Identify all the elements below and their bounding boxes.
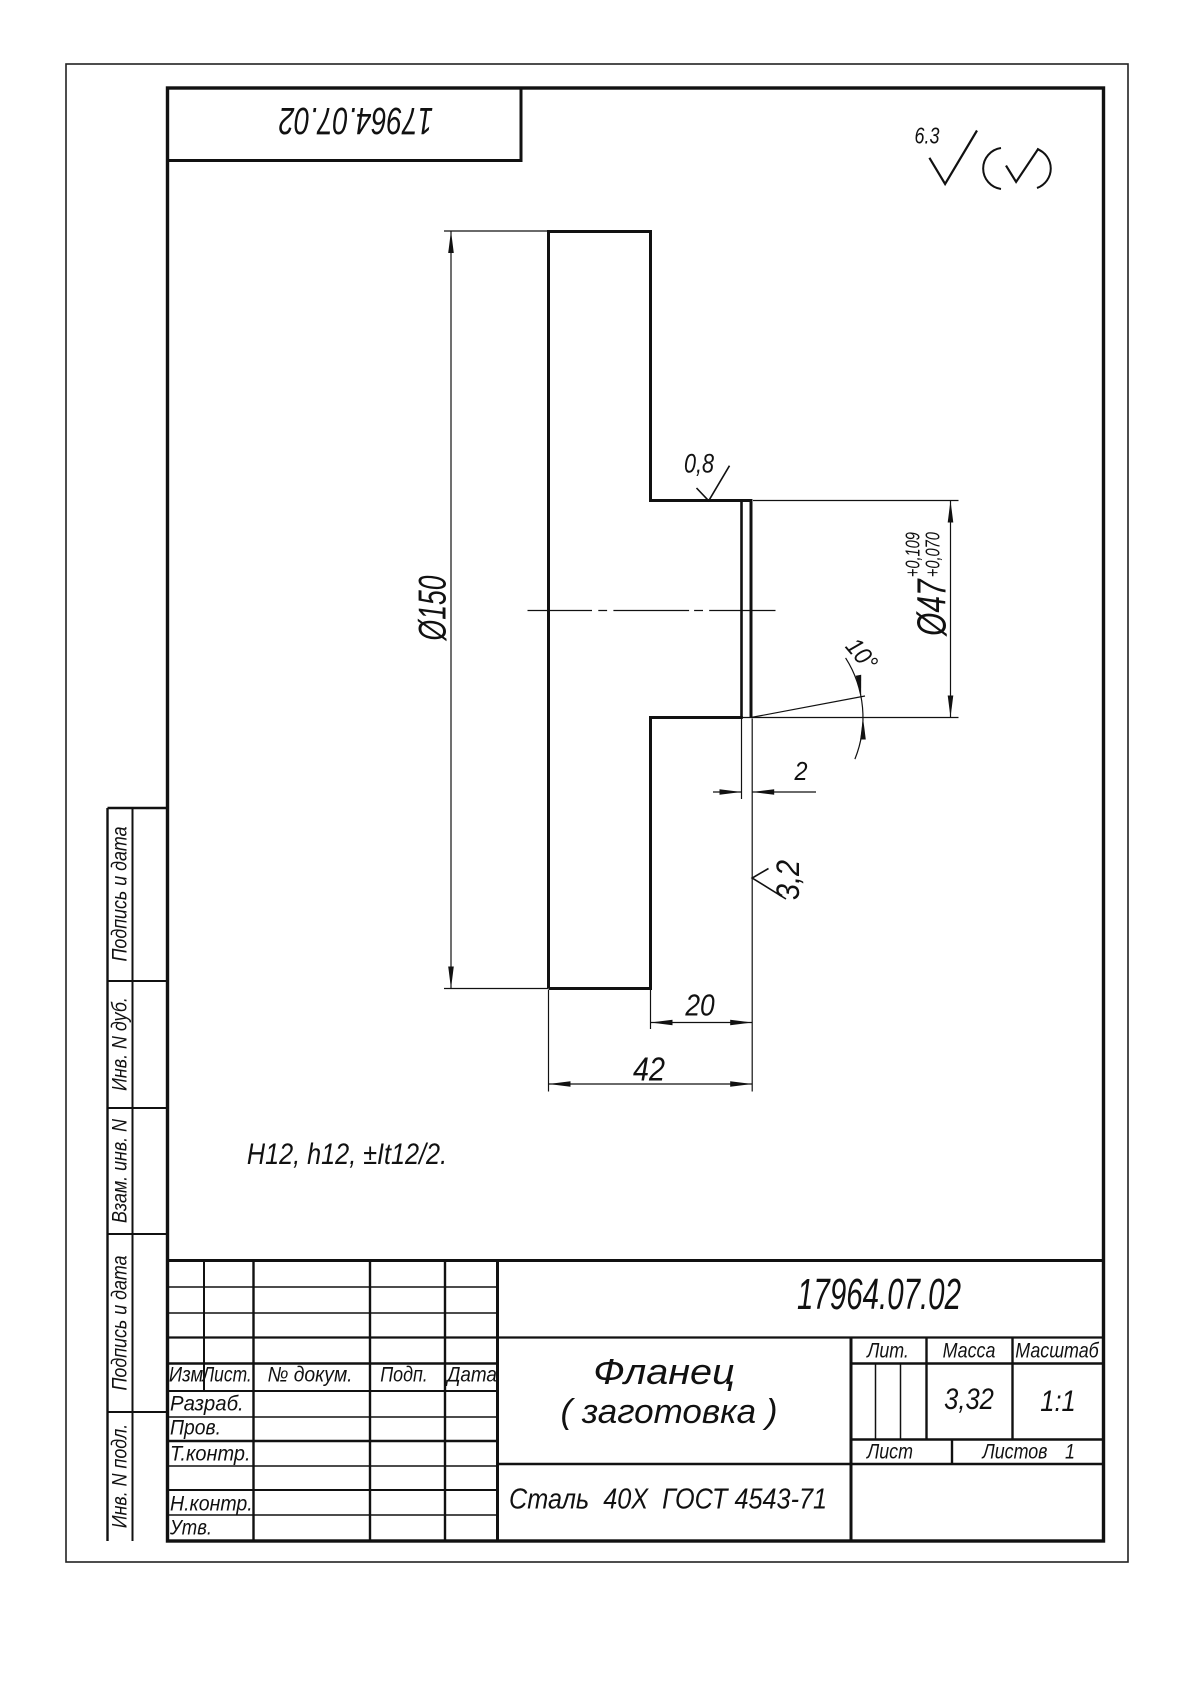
- roughness value 6.3: [915, 125, 940, 148]
- title block top line: [168, 1259, 1104, 1262]
- 10deg arc arrow lower: [860, 718, 866, 740]
- hub end-face inner line: [740, 501, 743, 718]
- roughness check mark on end face (3,2): [752, 869, 786, 900]
- title block row line (prov, thick): [168, 1440, 498, 1442]
- 20 dimension line: [651, 1022, 753, 1024]
- 2mm label: [794, 758, 807, 784]
- 2mm extension line left: [741, 719, 743, 800]
- inner thick drawing frame: [168, 88, 1104, 1541]
- left margin box divider 4: [108, 1411, 168, 1413]
- left margin label 4: Podpis i data: [110, 1255, 131, 1390]
- label N.kontr: [170, 1494, 253, 1515]
- left margin box top: [108, 807, 168, 809]
- roughness value 0,8: [684, 451, 714, 478]
- roughness value 3,2: [772, 860, 804, 900]
- header List: [202, 1365, 252, 1386]
- title block row line (n.kontr): [168, 1514, 498, 1516]
- header Lit: [867, 1341, 909, 1362]
- part name Flanec: [593, 1354, 734, 1390]
- dia150 dimension line: [450, 231, 452, 989]
- dia150 arrow down: [448, 967, 454, 989]
- masshtab value 1:1: [1040, 1387, 1075, 1417]
- 42 dimension line: [549, 1083, 753, 1085]
- dia47 label with tolerances: [904, 532, 953, 636]
- title block row line below header: [168, 1390, 498, 1392]
- title block row line 2: [168, 1312, 498, 1314]
- flange outline: disc left/top, hub top and end face: [549, 232, 752, 989]
- 20 extension line left: [650, 990, 652, 1029]
- dia47 arrow down: [948, 696, 954, 718]
- centerline: [528, 610, 776, 612]
- dia47 arrow up: [948, 501, 954, 523]
- label Listov: [982, 1442, 1047, 1463]
- line below list row: [498, 1463, 1104, 1465]
- 10deg label: [840, 634, 881, 676]
- top-left stamp box: [168, 88, 522, 161]
- label Razrab: [170, 1394, 244, 1415]
- title block column Izm|List: [203, 1261, 205, 1392]
- column massa|masshtab: [1011, 1338, 1013, 1440]
- title block column Data|name: [496, 1261, 499, 1542]
- label T.kontr: [170, 1444, 250, 1465]
- 20 arrow right: [730, 1020, 752, 1026]
- title block row line (t.kontr): [168, 1465, 498, 1467]
- 2mm / 20 / 42 shared right extension line: [751, 719, 753, 1092]
- left margin box divider 3: [108, 1233, 168, 1235]
- listov value 1: [1065, 1442, 1075, 1463]
- header Podp: [380, 1365, 428, 1386]
- left margin label 5: Inv N podl: [110, 1424, 131, 1528]
- label Prov: [170, 1418, 221, 1439]
- left margin label 2: Inv N dub: [110, 997, 131, 1091]
- 2mm arrow left (pointing right): [720, 789, 742, 795]
- massa value 3,32: [944, 1385, 994, 1415]
- roughness check mark on hub top (0,8): [697, 466, 730, 501]
- dia150 label: [414, 576, 453, 641]
- lit sub-cell line 2: [900, 1364, 902, 1440]
- title block column List|Ndoc: [252, 1261, 254, 1542]
- title block row line 1: [168, 1286, 498, 1288]
- column lit|massa: [925, 1338, 927, 1440]
- header Data: [447, 1365, 497, 1386]
- title block row line 3 / designation box bottom: [168, 1336, 1104, 1338]
- title block row line (empty, thick): [168, 1489, 498, 1491]
- dia150 extension line top: [444, 230, 548, 232]
- header Massa: [943, 1341, 996, 1362]
- 42 extension line left: [548, 990, 550, 1092]
- title block column name|lit: [850, 1338, 853, 1542]
- 20 arrow left: [651, 1020, 673, 1026]
- dia150 extension line bottom: [444, 988, 548, 990]
- label Utv: [170, 1518, 212, 1539]
- left margin label 3: Vzam inv N: [110, 1119, 131, 1223]
- general roughness small check in parens: [1006, 148, 1039, 182]
- outer thin sheet border: [66, 64, 1128, 1562]
- left margin label 1: Podpis i data: [110, 826, 131, 961]
- left parenthesis: [983, 148, 1001, 189]
- 10deg slanted leader line: [751, 696, 865, 718]
- lit sub-cell line 1: [875, 1364, 877, 1440]
- dia47 extension line top: [753, 500, 959, 502]
- designation 17964.07.02: [797, 1273, 961, 1317]
- line above list row: [851, 1438, 1104, 1440]
- title block header row line: [168, 1362, 1104, 1364]
- right parenthesis: [1037, 149, 1051, 188]
- column list|listov: [951, 1440, 953, 1465]
- dia47 extension line bottom: [742, 717, 959, 719]
- left margin box divider 2: [108, 1107, 168, 1109]
- general roughness big check: [929, 131, 977, 185]
- title block column Ndoc|Podp: [369, 1261, 371, 1542]
- title block column Podp|Data: [444, 1261, 446, 1542]
- label List: [867, 1442, 913, 1463]
- left margin box divider 1: [108, 980, 168, 982]
- header N dokum: [267, 1365, 352, 1386]
- dia150 arrow up: [448, 231, 454, 253]
- left margin column outer line: [106, 808, 108, 1541]
- tolerance note: [247, 1140, 447, 1170]
- part name zagotovka: [560, 1395, 777, 1429]
- 42 arrow right: [730, 1081, 752, 1087]
- flange outline: hub bottom, disc lower right, disc bottom: [549, 718, 743, 989]
- 2mm dimension line: [713, 791, 816, 793]
- stamp text 17964.07.02 rotated 180: [279, 101, 433, 139]
- 10deg arc arrow upper: [856, 675, 862, 697]
- left margin column inner line: [132, 808, 134, 1541]
- header Masshtab: [1015, 1341, 1098, 1362]
- dia47 dimension line: [950, 501, 952, 718]
- 20 label: [685, 990, 714, 1021]
- 42 arrow left: [549, 1081, 571, 1087]
- 2mm arrow right (pointing left): [752, 789, 774, 795]
- title block row line (razrab): [168, 1416, 498, 1418]
- 10deg angle arc: [846, 658, 863, 759]
- material line: [509, 1486, 827, 1515]
- header Izm: [169, 1365, 203, 1386]
- 42 label: [633, 1053, 665, 1086]
